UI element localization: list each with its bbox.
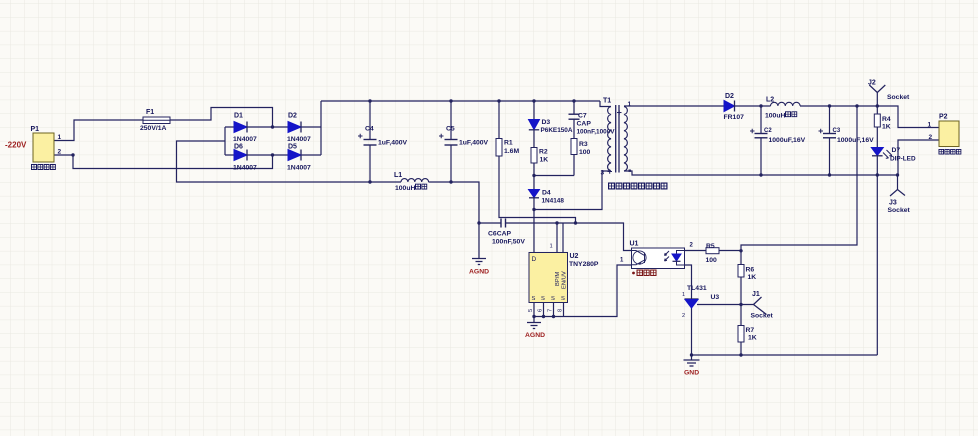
svg-text:U2: U2 — [570, 253, 579, 260]
P2 comment text (CJK) — [939, 149, 961, 154]
diode D4 — [529, 190, 565, 205]
svg-text:1K: 1K — [748, 335, 757, 342]
svg-text:L2: L2 — [766, 97, 774, 104]
svg-text:TNY280P: TNY280P — [569, 261, 599, 268]
svg-text:D2: D2 — [288, 113, 297, 120]
wire rail to primary top — [600, 101, 611, 107]
svg-text:1: 1 — [928, 122, 932, 129]
capacitor C7 — [569, 113, 616, 136]
fuse F1 — [140, 109, 170, 132]
svg-text:1N4148: 1N4148 — [542, 198, 565, 205]
svg-text:1N4007: 1N4007 — [233, 136, 257, 143]
svg-text:D5: D5 — [288, 144, 297, 151]
resistor R4 — [874, 114, 891, 131]
wire C2 taps — [760, 106, 762, 175]
connector P2 — [928, 114, 960, 147]
diode D5 — [287, 144, 311, 172]
svg-text:L1: L1 — [394, 172, 402, 179]
wire J3 stem — [890, 175, 905, 196]
svg-text:6: 6 — [538, 309, 544, 312]
wire drain to transformer primary bottom — [534, 171, 611, 210]
svg-text:1K: 1K — [540, 157, 549, 164]
svg-text:R3: R3 — [579, 141, 588, 148]
svg-text:100uH: 100uH — [765, 113, 785, 120]
svg-text:FR107: FR107 — [724, 114, 745, 121]
ground AGND left — [469, 259, 489, 276]
svg-text:8: 8 — [558, 309, 564, 312]
capacitor C4 — [358, 126, 408, 147]
wire bypass C6 line — [479, 223, 632, 251]
resistor R3 — [571, 139, 591, 157]
capacitor C3 — [819, 128, 875, 144]
svg-text:P2: P2 — [939, 114, 948, 121]
svg-text:1: 1 — [682, 292, 685, 298]
diode D3 — [529, 119, 573, 134]
wire AGND stub left — [478, 223, 480, 259]
ground AGND chip — [525, 323, 545, 340]
svg-text:DIP-LED: DIP-LED — [890, 156, 916, 163]
wire bridge left bracket — [224, 127, 226, 155]
svg-text:S: S — [541, 296, 545, 302]
svg-text:1000uF,16V: 1000uF,16V — [837, 137, 874, 144]
svg-text:C2: C2 — [764, 128, 772, 134]
svg-text:100nF,50V: 100nF,50V — [492, 239, 525, 246]
wire TL431 anode to GND rail — [692, 308, 878, 355]
svg-text:1.6M: 1.6M — [504, 148, 519, 155]
svg-text:1uF,400V: 1uF,400V — [378, 140, 408, 147]
svg-text:J3: J3 — [889, 200, 897, 207]
capacitor C2 — [750, 128, 806, 144]
wire bridge row2 — [225, 154, 321, 156]
wire R6 leg — [740, 251, 742, 305]
svg-text:J1: J1 — [752, 291, 760, 298]
svg-text:D2: D2 — [725, 93, 734, 100]
wire snubber D3-R2 leg — [533, 101, 535, 176]
ground GND — [684, 355, 700, 377]
svg-text:U3: U3 — [711, 294, 720, 301]
svg-text:R6: R6 — [746, 267, 755, 274]
wire top DC rail — [321, 100, 600, 102]
svg-text:1uF,400V: 1uF,400V — [459, 140, 489, 147]
regulator U3 TL431 — [682, 285, 719, 319]
svg-text:1N4007: 1N4007 — [287, 165, 311, 172]
svg-text:250V/1A: 250V/1A — [140, 125, 167, 132]
wire EN stub — [562, 223, 564, 253]
svg-text:100: 100 — [706, 257, 718, 264]
connector P1 — [31, 126, 62, 162]
svg-text:7: 7 — [548, 309, 554, 312]
wire snubber C7-R3 leg — [573, 101, 575, 176]
wire secondary top to output rail — [624, 105, 771, 107]
wire fuse to bridge top input — [170, 108, 273, 128]
P1 comment text (CJK) — [31, 164, 55, 169]
wire opto collector feed — [685, 250, 742, 252]
svg-text:TL431: TL431 — [687, 285, 707, 292]
svg-text:EN/UV: EN/UV — [562, 271, 568, 289]
diode D1 — [233, 113, 257, 144]
svg-text:100: 100 — [579, 149, 591, 156]
diode D6 — [233, 144, 257, 172]
svg-text:S: S — [532, 296, 536, 302]
wire feedback tap — [741, 106, 857, 251]
svg-text:100uH: 100uH — [395, 185, 415, 192]
svg-text:1N4007: 1N4007 — [233, 165, 257, 172]
wire C4 taps — [369, 101, 371, 182]
wire BP stub — [556, 223, 558, 253]
capacitor C5 — [439, 126, 489, 147]
svg-text:P1: P1 — [31, 126, 40, 133]
resistor R1 — [496, 139, 519, 157]
svg-text:F1: F1 — [146, 109, 154, 116]
svg-text:R7: R7 — [746, 327, 755, 334]
LED D7 — [871, 147, 916, 163]
wire P2 pin2 — [898, 140, 939, 175]
wire R7 leg — [740, 305, 742, 356]
svg-text:1000uF,16V: 1000uF,16V — [769, 137, 806, 144]
wire TL431 ref to J1 — [697, 297, 767, 315]
svg-text:1: 1 — [628, 101, 632, 108]
svg-text:R5: R5 — [706, 243, 715, 250]
wire P1 pin2 to bridge bottom input — [54, 155, 273, 169]
svg-text:-220V: -220V — [5, 141, 27, 150]
svg-text:Socket: Socket — [888, 207, 911, 214]
connector J1 socket — [751, 291, 774, 320]
svg-text:1N4007: 1N4007 — [287, 136, 311, 143]
inductor L2 — [765, 97, 800, 120]
svg-text:1: 1 — [58, 134, 62, 141]
svg-text:2: 2 — [929, 134, 933, 141]
wire P1 pin1 to fuse — [54, 120, 143, 141]
svg-text:U1: U1 — [630, 241, 639, 248]
svg-text:1K: 1K — [882, 124, 891, 131]
wire output rail after L2 — [800, 106, 939, 128]
U1 comment text (CJK) — [632, 270, 656, 275]
svg-text:5: 5 — [528, 309, 534, 312]
wire D4 to chip drain — [533, 176, 535, 253]
svg-text:C4: C4 — [365, 126, 374, 133]
diode D2 output rectifier — [724, 93, 745, 121]
connector J3 socket — [888, 200, 911, 215]
inductor L1 — [394, 172, 429, 192]
svg-text:D4: D4 — [542, 190, 551, 197]
resistor R6 — [738, 265, 756, 282]
wire secondary bottom to output neg rail — [624, 171, 898, 175]
svg-text:P6KE150A: P6KE150A — [541, 127, 573, 134]
svg-text:1K: 1K — [748, 274, 757, 281]
svg-text:AGND: AGND — [469, 269, 489, 276]
wire bridge anode tap to neg rail — [177, 141, 402, 182]
svg-text:R4: R4 — [882, 116, 891, 123]
svg-text:D7: D7 — [892, 147, 901, 154]
svg-text:R1: R1 — [504, 140, 513, 147]
svg-text:2: 2 — [682, 313, 685, 319]
svg-text:Socket: Socket — [751, 313, 774, 320]
wire chip source pins to opto emitter — [534, 265, 632, 317]
wire neg rail after L1 — [429, 182, 480, 223]
svg-text:2: 2 — [58, 149, 62, 156]
resistor R2 — [531, 148, 548, 164]
svg-text:C3: C3 — [833, 128, 841, 134]
diode D2 — [287, 113, 311, 144]
svg-text:1: 1 — [550, 244, 553, 250]
svg-text:BP/M: BP/M — [555, 272, 561, 286]
wire R1 leg — [499, 101, 576, 223]
svg-text:R2: R2 — [539, 149, 548, 156]
wire C5 taps — [450, 101, 452, 182]
optocoupler U1 — [620, 241, 694, 269]
wire R4 LED chain — [876, 106, 878, 355]
svg-text:AGND: AGND — [525, 332, 545, 339]
svg-text:S: S — [551, 296, 555, 302]
svg-text:CAP: CAP — [577, 121, 592, 128]
resistor R5 — [706, 243, 720, 264]
svg-text:S: S — [561, 296, 565, 302]
connector J2 socket — [868, 80, 910, 102]
transformer T1 — [601, 98, 632, 177]
svg-text:C5: C5 — [446, 126, 455, 133]
svg-text:D6: D6 — [234, 144, 243, 151]
wire C3 taps — [829, 106, 831, 175]
svg-text:3: 3 — [601, 170, 605, 177]
T1 comment text (CJK) — [609, 183, 667, 189]
wire J2 stem — [869, 85, 885, 106]
svg-text:C6CAP: C6CAP — [488, 231, 512, 238]
capacitor C6 — [488, 219, 525, 246]
wire snubber node — [534, 175, 574, 177]
svg-text:C7: C7 — [578, 113, 587, 120]
svg-text:J2: J2 — [868, 80, 876, 87]
svg-text:Socket: Socket — [887, 94, 910, 101]
resistor R7 — [738, 326, 757, 343]
wire bridge right bracket — [320, 101, 322, 155]
svg-text:D3: D3 — [542, 119, 551, 126]
svg-text:GND: GND — [684, 370, 699, 377]
wire chip ground stub — [533, 317, 535, 323]
wire opto LED cathode to TL431 — [685, 265, 692, 299]
IC U2 TNY280P — [528, 244, 599, 313]
svg-text:D1: D1 — [234, 113, 243, 120]
svg-text:T1: T1 — [603, 98, 611, 105]
svg-text:D: D — [532, 256, 537, 263]
wire bridge row1 — [225, 126, 321, 128]
